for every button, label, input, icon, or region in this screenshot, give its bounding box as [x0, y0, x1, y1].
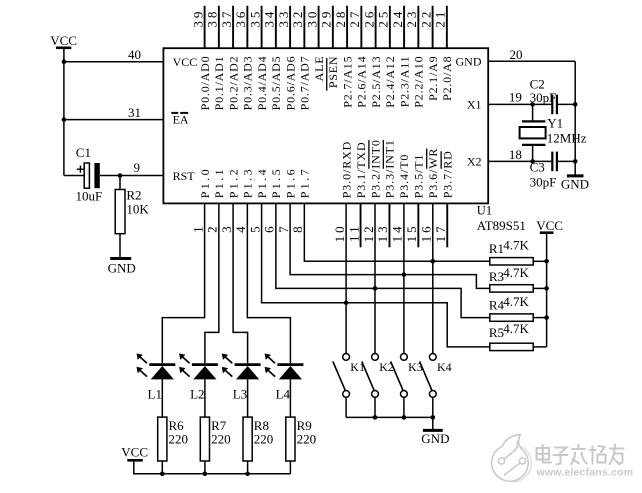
resistor R3: [490, 285, 533, 292]
svg-text:P2.6/A14: P2.6/A14: [355, 56, 369, 108]
svg-text:34: 34: [262, 9, 277, 28]
svg-text:P3.2/INT0: P3.2/INT0: [368, 139, 382, 198]
svg-text:L2: L2: [190, 387, 204, 402]
svg-text:VCC: VCC: [173, 55, 198, 69]
switch K3: [391, 354, 408, 418]
junction C2 / rail: [573, 102, 578, 107]
svg-text:P3.4/T0: P3.4/T0: [397, 154, 411, 199]
pin 26 (P2.5/A13) top: [361, 6, 383, 108]
svg-text:3: 3: [219, 223, 234, 233]
svg-text:32: 32: [290, 9, 305, 28]
pin 23 (P2.2/A10) top: [404, 6, 426, 108]
pin 28 (P2.7/A15) top: [333, 6, 355, 108]
svg-text:24: 24: [390, 9, 405, 28]
svg-text:10K: 10K: [126, 201, 149, 216]
svg-text:27: 27: [347, 9, 362, 28]
svg-text:28: 28: [333, 9, 348, 28]
wire P1.6 (pin 7) to R3: [290, 203, 490, 288]
svg-text:RST: RST: [173, 169, 196, 183]
svg-text:VCC: VCC: [50, 33, 77, 48]
wire pin 18 (X2): [488, 160, 552, 162]
svg-text:X2: X2: [467, 155, 482, 169]
svg-text:P3.1/TXD: P3.1/TXD: [354, 141, 368, 198]
svg-text:13: 13: [375, 223, 390, 242]
capacitor C3: [552, 152, 557, 172]
power symbol VCC (bottom): [121, 445, 148, 461]
pin 5 (P1.4) bottom: [247, 167, 269, 233]
ground symbol (reset): [108, 259, 136, 276]
wire R7 to VCC bus: [204, 461, 206, 474]
svg-text:P0.1/AD1: P0.1/AD1: [212, 56, 226, 111]
wire stub pin 13: [388, 203, 390, 247]
svg-text:20: 20: [510, 47, 523, 62]
svg-text:P2.1/A9: P2.1/A9: [426, 56, 440, 101]
svg-text:4: 4: [233, 223, 248, 233]
junction VCC rail / pin 40: [62, 59, 67, 64]
svg-text:4.7K: 4.7K: [503, 321, 529, 336]
svg-text:40: 40: [128, 47, 141, 62]
pin 14 (P3.4/T0) bottom: [390, 154, 412, 243]
svg-text:37: 37: [219, 9, 234, 28]
svg-text:Y1: Y1: [547, 116, 563, 131]
pin 16 (P3.6/WR) bottom: [419, 148, 441, 243]
svg-text:R3: R3: [489, 269, 504, 284]
svg-text:P2.0/A8: P2.0/A8: [440, 56, 454, 101]
wire L4 to R9: [289, 379, 291, 417]
svg-text:220: 220: [254, 432, 273, 447]
svg-text:P3.3/INT1: P3.3/INT1: [383, 139, 397, 198]
resistor R9: [286, 417, 295, 461]
capacitor C2: [552, 95, 557, 115]
pin 37 (P0.2/AD2) top: [219, 6, 241, 111]
wire pin 31 (EA): [64, 119, 163, 121]
svg-text:220: 220: [169, 432, 189, 447]
pin 4 (P1.3) bottom: [233, 167, 255, 233]
pin 10 (P3.0/RXD) bottom: [332, 141, 354, 243]
svg-text:220: 220: [297, 432, 317, 447]
svg-text:P3.5/T1: P3.5/T1: [412, 154, 426, 199]
svg-text:PSEN: PSEN: [326, 56, 340, 89]
svg-text:R5: R5: [489, 325, 504, 340]
wire R9 to VCC bus: [289, 461, 291, 474]
junction bus / R8: [245, 472, 250, 477]
junction R3 / rail: [544, 286, 549, 291]
svg-text:P2.3/A11: P2.3/A11: [397, 56, 411, 108]
junction P1.5 row / K2 column: [373, 286, 378, 291]
junction VCC rail / pin 31: [62, 117, 67, 122]
pin 17 (P3.7/RD) bottom: [433, 150, 455, 242]
svg-text:P0.7/AD7: P0.7/AD7: [298, 56, 312, 111]
wire switch ground bus: [346, 416, 433, 418]
svg-text:P0.6/AD6: P0.6/AD6: [283, 56, 297, 111]
wire stub pin 17: [446, 203, 448, 247]
svg-text:P1.2: P1.2: [226, 167, 240, 198]
wire C3 to rail: [557, 160, 575, 162]
wire P1.0 (pin 1) to L1: [162, 203, 204, 363]
pin 2 (P1.1) bottom: [205, 167, 227, 233]
wire P3.6 (pin 16) to switch K4: [432, 203, 434, 353]
pin 7 (P1.6) bottom: [276, 167, 298, 233]
svg-text:P2.7/A15: P2.7/A15: [340, 56, 354, 108]
resistor R4: [490, 314, 533, 321]
ground symbol (oscillator): [561, 176, 589, 191]
watermark brand text (decorative): [537, 445, 624, 465]
junction bus / K2: [373, 415, 378, 420]
pin 8 (P1.7) bottom: [290, 167, 312, 233]
svg-text:GND: GND: [421, 431, 449, 446]
junction C3 / rail: [573, 159, 578, 164]
junction P1.7 row / K4 column: [431, 259, 436, 264]
wire P1.1 (pin 2) to L2: [205, 203, 219, 363]
junction bus / R7: [203, 472, 208, 477]
svg-text:GND: GND: [456, 55, 482, 69]
svg-text:P0.0/AD0: P0.0/AD0: [198, 56, 212, 111]
svg-text:L1: L1: [148, 387, 162, 402]
power symbol VCC (top left): [50, 33, 77, 48]
pin name EA with overline (pin 31): [171, 113, 189, 127]
svg-text:EA: EA: [173, 113, 189, 127]
LED L4: [265, 354, 304, 380]
pin 38 (P0.1/AD1) top: [205, 6, 227, 111]
junction R4 / rail: [544, 315, 549, 320]
watermark logo (decorative): [492, 434, 532, 481]
wire C2 to rail: [557, 103, 575, 105]
svg-text:K4: K4: [437, 360, 452, 374]
resistor R6: [158, 417, 167, 461]
LED L2: [179, 354, 218, 380]
ground symbol (keys): [421, 430, 449, 445]
svg-text:X1: X1: [467, 98, 482, 112]
svg-text:220: 220: [211, 432, 231, 447]
svg-text:19: 19: [509, 89, 522, 104]
wire P1.2 (pin 3) to L3: [233, 203, 248, 363]
svg-text:30: 30: [304, 9, 319, 28]
wire P1.3 (pin 4) to L4: [247, 203, 290, 363]
svg-text:L4: L4: [276, 387, 291, 402]
switch K4: [420, 354, 437, 418]
svg-text:18: 18: [509, 147, 522, 162]
wire pin 20 (GND) to ground rail: [488, 60, 575, 62]
svg-text:P0.3/AD3: P0.3/AD3: [241, 56, 255, 111]
svg-text:36: 36: [233, 9, 248, 28]
svg-text:14: 14: [390, 223, 405, 242]
wire R3 to VCC rail: [533, 287, 546, 289]
pin 33 (P0.6/AD6) top: [276, 6, 298, 111]
svg-text:35: 35: [247, 9, 262, 28]
capacitor C1 (polarized): [64, 163, 100, 188]
svg-text:4.7K: 4.7K: [503, 265, 529, 280]
svg-text:38: 38: [205, 9, 220, 28]
pin 27 (P2.6/A14) top: [347, 6, 369, 108]
svg-text:P0.2/AD2: P0.2/AD2: [226, 56, 240, 111]
crystal Y1 12MHz: [520, 104, 546, 161]
wire VCC rail (left): [63, 48, 65, 176]
svg-text:4.7K: 4.7K: [503, 294, 529, 309]
svg-text:P1.5: P1.5: [269, 167, 283, 198]
svg-text:33: 33: [276, 9, 291, 28]
wire P1.5 (pin 6) to R4: [276, 203, 490, 317]
svg-text:P2.2/A10: P2.2/A10: [412, 56, 426, 108]
svg-text:5: 5: [247, 223, 262, 233]
pin 39 (P0.0/AD0) top: [190, 6, 212, 111]
svg-text:P3.7/RD: P3.7/RD: [441, 150, 455, 198]
svg-text:P0.4/AD4: P0.4/AD4: [255, 56, 269, 111]
svg-text:C1: C1: [76, 145, 91, 160]
wire L1 to R6: [161, 379, 163, 417]
svg-text:6: 6: [262, 223, 277, 233]
wire R8 to VCC bus: [247, 461, 249, 474]
svg-text:15: 15: [404, 223, 419, 242]
wire VCC rail (pull-ups): [546, 233, 548, 347]
svg-text:26: 26: [361, 9, 376, 28]
pin 21 (P2.0/A8) top: [433, 6, 455, 101]
pin 30 (ALE) top: [304, 6, 326, 82]
wire L3 to R8: [247, 379, 249, 417]
svg-text:P1.4: P1.4: [255, 167, 269, 198]
svg-text:GND: GND: [561, 176, 589, 191]
svg-text:P1.0: P1.0: [198, 167, 212, 198]
junction R1 / rail: [544, 259, 549, 264]
pin 34 (P0.5/AD5) top: [262, 6, 284, 111]
LED L3: [222, 354, 261, 380]
svg-text:P1.7: P1.7: [298, 167, 312, 198]
pin 25 (P2.4/A12) top: [376, 6, 398, 108]
resistor R7: [200, 417, 209, 461]
svg-text:U1: U1: [477, 204, 492, 218]
svg-text:16: 16: [419, 223, 434, 242]
svg-text:7: 7: [276, 223, 291, 233]
svg-text:P3.0/RXD: P3.0/RXD: [339, 141, 353, 199]
svg-text:12MHz: 12MHz: [547, 131, 587, 146]
junction P1.6 row / K3 column: [402, 272, 407, 277]
svg-text:VCC: VCC: [121, 445, 148, 460]
svg-text:GND: GND: [108, 261, 136, 276]
pin 36 (P0.3/AD3) top: [233, 6, 255, 111]
wire P3.2 (pin 12) to switch K2: [374, 203, 376, 353]
pin 15 (P3.5/T1) bottom: [404, 154, 426, 243]
pin 1 (P1.0) bottom: [190, 167, 212, 233]
wire stub pin 11: [360, 203, 362, 247]
svg-text:AT89S51: AT89S51: [477, 218, 526, 233]
wire pin 40 (VCC): [64, 61, 163, 63]
wire ground rail (right): [574, 61, 576, 176]
wire P3.4 (pin 14) to switch K3: [403, 203, 405, 353]
svg-text:23: 23: [404, 9, 419, 28]
svg-text:P2.5/A13: P2.5/A13: [369, 56, 383, 108]
power symbol VCC (pull-ups): [536, 218, 563, 233]
svg-text:10: 10: [332, 223, 347, 242]
pin 24 (P2.3/A11) top: [390, 6, 412, 107]
wire L2 to R7: [204, 379, 206, 417]
wire R4 to VCC rail: [533, 317, 546, 319]
pin 35 (P0.4/AD4) top: [247, 6, 269, 111]
wire VCC bus (LED supply): [134, 460, 291, 474]
svg-text:31: 31: [128, 105, 141, 120]
wire C1 to RST pin 9: [100, 175, 164, 177]
wire R5 to VCC rail: [533, 346, 546, 348]
junction RST / R2: [118, 173, 123, 178]
switch K1: [333, 354, 350, 418]
svg-text:29: 29: [319, 9, 334, 28]
svg-text:17: 17: [433, 223, 448, 242]
wire pin 19 (X1): [488, 103, 552, 105]
svg-text:22: 22: [418, 9, 433, 28]
pin 29 (PSEN) top: [319, 6, 341, 91]
svg-text:www.elecfans.com: www.elecfans.com: [536, 466, 634, 478]
junction P1.4 row / K1 column: [344, 301, 349, 306]
svg-text:21: 21: [433, 9, 448, 28]
pin 6 (P1.5) bottom: [262, 167, 284, 233]
svg-text:P2.4/A12: P2.4/A12: [383, 56, 397, 108]
wire P3.0 (pin 10) to switch K1: [345, 203, 347, 353]
pin 32 (P0.7/AD7) top: [290, 6, 312, 111]
junction bus / K4: [431, 415, 436, 420]
svg-text:P1.6: P1.6: [283, 167, 297, 198]
svg-text:30pF: 30pF: [530, 174, 557, 189]
resistor R1: [490, 258, 533, 265]
svg-text:P1.3: P1.3: [241, 167, 255, 198]
resistor R5: [490, 343, 533, 350]
wire P1.4 (pin 5) to R5: [262, 203, 490, 347]
wire stub pin 15: [417, 203, 419, 247]
svg-text:ALE: ALE: [312, 56, 326, 82]
svg-text:11: 11: [346, 223, 361, 242]
pin 3 (P1.2) bottom: [219, 167, 241, 233]
wire bus to ground: [432, 417, 434, 430]
svg-text:P1.1: P1.1: [212, 167, 226, 198]
svg-text:2: 2: [205, 223, 220, 233]
wire P1.7 (pin 8) to R1: [304, 203, 489, 261]
svg-text:L3: L3: [233, 387, 247, 402]
svg-text:9: 9: [134, 160, 141, 175]
svg-text:1: 1: [190, 223, 205, 233]
svg-text:25: 25: [376, 9, 391, 28]
pin 12 (P3.2/INT0) bottom: [361, 139, 383, 242]
wire R6 to VCC bus: [161, 461, 163, 474]
svg-text:VCC: VCC: [536, 218, 563, 233]
svg-text:12: 12: [361, 223, 376, 242]
pin 13 (P3.3/INT1) bottom: [375, 139, 397, 242]
junction bus / R6: [160, 472, 165, 477]
LED L1: [137, 354, 176, 380]
pin 11 (P3.1/TXD) bottom: [346, 141, 368, 242]
svg-text:P0.5/AD5: P0.5/AD5: [269, 56, 283, 111]
wire R2 to GND: [119, 234, 121, 259]
svg-text:P3.6/WR: P3.6/WR: [426, 148, 440, 199]
svg-text:R4: R4: [489, 297, 505, 312]
svg-text:8: 8: [290, 223, 305, 233]
svg-text:39: 39: [190, 9, 205, 28]
resistor R8: [243, 417, 252, 461]
junction bus / K3: [402, 415, 407, 420]
svg-text:10uF: 10uF: [76, 189, 103, 204]
svg-text:R1: R1: [489, 241, 504, 256]
junction X2 / crystal: [530, 159, 535, 164]
junction X1 / crystal: [530, 102, 535, 107]
pin 22 (P2.1/A9) top: [418, 6, 440, 101]
op-amp-style IC body U1 AT89S51: [163, 48, 488, 203]
svg-text:4.7K: 4.7K: [503, 238, 529, 253]
resistor R2: [115, 176, 125, 234]
svg-text:R2: R2: [126, 188, 141, 203]
switch K2: [362, 354, 379, 418]
wire R1 to VCC rail: [533, 260, 546, 262]
